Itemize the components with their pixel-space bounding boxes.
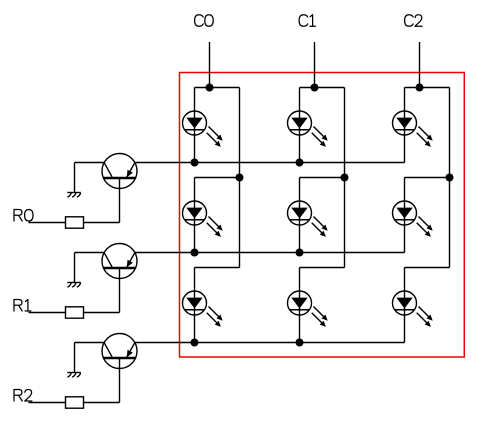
- wire column 0 cell2 top: [195, 267, 240, 269]
- net label R2: [14, 390, 32, 402]
- net label R1: [14, 300, 31, 312]
- wire resistor to pin R0: [29, 222, 66, 224]
- wire column 2 bus lower segment: [449, 178, 451, 268]
- ground symbol: [67, 373, 81, 378]
- wire Q2 base lead: [119, 268, 121, 313]
- wire column 0 cell0 top: [195, 87, 240, 89]
- wire column 1 cell0 top: [300, 87, 345, 89]
- wire column 1 cell2 top: [300, 267, 345, 269]
- wire column 0 bus lower segment: [239, 178, 241, 268]
- LED D10: [183, 178, 223, 253]
- node column 2 bus row1 junction: [446, 174, 454, 182]
- resistor R0 body: [66, 217, 84, 228]
- node row 1 col 0 cathode junction: [191, 249, 199, 257]
- node row 2 col 1 cathode junction: [296, 339, 304, 347]
- wire row 1 line: [135, 252, 405, 254]
- wire base to resistor: [84, 402, 120, 404]
- LED D12: [393, 178, 433, 253]
- wire column 0 bus upper segment: [239, 88, 241, 178]
- resistor R1 body: [66, 307, 84, 318]
- ground symbol: [67, 193, 81, 198]
- LED D00: [183, 88, 223, 163]
- wire Q1 left lead: [75, 162, 105, 164]
- node column 2 entry junction: [416, 84, 424, 92]
- node row 0 col 0 cathode junction: [191, 159, 199, 167]
- wire Q1 base lead: [119, 178, 121, 223]
- LED D20: [183, 268, 223, 343]
- wire column 2 cell1 top: [405, 177, 450, 179]
- wire Q1 ground lead: [74, 163, 76, 193]
- transistor Q2: [102, 244, 137, 279]
- wire column 2 bus upper segment: [449, 88, 451, 178]
- LED D02: [393, 88, 433, 163]
- wire row 0 line: [135, 162, 405, 164]
- wire column 1 cell1 top: [300, 177, 345, 179]
- transistor Q3: [102, 334, 137, 369]
- wire Q2 left lead: [75, 252, 105, 254]
- wire C0 column stub: [209, 42, 211, 88]
- node row 2 col 0 cathode junction: [191, 339, 199, 347]
- ground symbol: [67, 283, 81, 288]
- LED D21: [288, 268, 328, 343]
- net label C1: [299, 15, 315, 27]
- wire column 1 bus upper segment: [344, 88, 346, 178]
- wire C2 column stub: [419, 42, 421, 88]
- wire column 2 cell0 top: [405, 87, 450, 89]
- matrix outline box: [180, 73, 465, 358]
- node column 0 bus row1 junction: [236, 174, 244, 182]
- node column 1 entry junction: [311, 84, 319, 92]
- wire row 2 line: [135, 342, 405, 344]
- wire column 1 bus lower segment: [344, 178, 346, 268]
- wire Q3 ground lead: [74, 343, 76, 373]
- transistor Q1: [102, 154, 137, 189]
- LED D01: [288, 88, 328, 163]
- LED D11: [288, 178, 328, 253]
- wire column 0 cell1 top: [195, 177, 240, 179]
- node column 0 entry junction: [206, 84, 214, 92]
- wire Q2 ground lead: [74, 253, 76, 283]
- wire Q3 base lead: [119, 358, 121, 403]
- resistor R2 body: [66, 397, 84, 408]
- wire base to resistor: [84, 222, 120, 224]
- wire Q3 left lead: [75, 342, 105, 344]
- node row 0 col 1 cathode junction: [296, 159, 304, 167]
- net label R0: [14, 210, 33, 222]
- wire column 2 cell2 top: [405, 267, 450, 269]
- net label C0: [195, 15, 214, 27]
- net label C2: [405, 15, 423, 27]
- wire base to resistor: [84, 312, 120, 314]
- LED D22: [393, 268, 433, 343]
- wire resistor to pin R2: [29, 402, 66, 404]
- wire C1 column stub: [314, 42, 316, 88]
- node row 1 col 1 cathode junction: [296, 249, 304, 257]
- node column 1 bus row1 junction: [341, 174, 349, 182]
- wire resistor to pin R1: [29, 312, 66, 314]
